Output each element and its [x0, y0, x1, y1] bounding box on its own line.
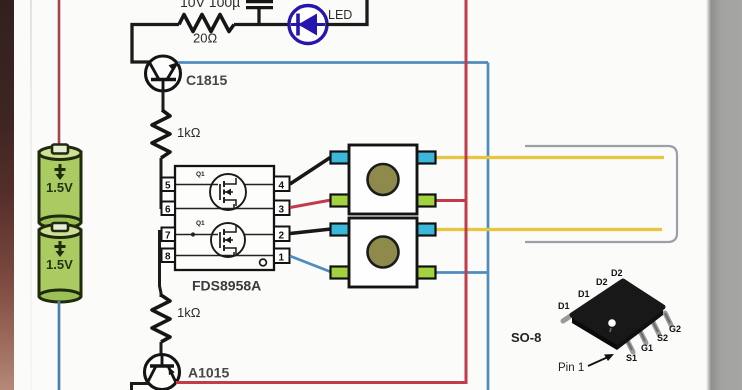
svg-text:10V 100µ: 10V 100µ — [180, 0, 240, 10]
svg-text:20Ω: 20Ω — [193, 31, 217, 46]
svg-text:D2: D2 — [596, 277, 608, 287]
red wire: Q2 emitter along bottom and up right side — [176, 0, 466, 383]
pin 6 — [162, 202, 176, 216]
internal wire pin7 to gate Q1b — [175, 232, 218, 236]
resistor R1 1kΩ (vertical zigzag) — [152, 110, 170, 158]
mosfet Q1a symbol — [210, 174, 246, 210]
label A1015 — [188, 365, 229, 381]
svg-text:SO-8: SO-8 — [511, 330, 541, 345]
receiver outline (open grey rounded rect) — [525, 146, 677, 242]
yellow wire: motor M2 to receiver — [435, 228, 662, 231]
battery B1 red lead — [58, 0, 61, 148]
resistor R2 1kΩ (vertical zigzag) — [152, 295, 170, 342]
value label 10V 100µ (top-clipped) — [180, 0, 240, 10]
IC U1 FDS8958A body — [175, 166, 274, 270]
svg-text:1: 1 — [279, 253, 285, 264]
svg-text:G1: G1 — [641, 343, 653, 353]
svg-text:1.5V: 1.5V — [46, 257, 73, 272]
pin 5 — [162, 178, 176, 192]
svg-text:4: 4 — [279, 181, 285, 192]
svg-text:C1815: C1815 — [186, 72, 227, 88]
capacitor C1 stub — [257, 9, 260, 25]
tiny label Q1a — [196, 171, 205, 178]
LED D1 (blue circled diode) — [289, 6, 327, 44]
capacitor C1 plates — [246, 2, 273, 8]
resistor 20Ω (horizontal zigzag in top rail) — [179, 15, 234, 32]
wire: pin2 to motor M2 + terminal — [290, 229, 331, 234]
wire: pin1 to motor M2 - terminal — [290, 256, 331, 272]
pin 4 — [274, 177, 290, 192]
pin 2 — [274, 227, 290, 242]
wire: pins 7/8 junction bar going down to R2 — [160, 230, 162, 297]
pin 8 — [162, 249, 176, 263]
battery B2 blue lead — [58, 301, 61, 390]
svg-text:A1015: A1015 — [188, 365, 229, 381]
motor M1 — [331, 145, 436, 214]
battery B1 1.5V — [39, 145, 81, 229]
svg-text:LED: LED — [328, 8, 352, 22]
red wire: M1 green tab to red net — [435, 199, 466, 202]
svg-text:8: 8 — [165, 252, 171, 263]
mosfet Q1b symbol — [211, 223, 245, 257]
svg-text:5: 5 — [165, 181, 171, 192]
svg-text:1kΩ: 1kΩ — [177, 125, 201, 140]
transistor Q1 C1815 (NPN, rotated) — [146, 56, 181, 92]
svg-text:FDS8958A: FDS8958A — [192, 278, 261, 294]
wire: pin4 to motor M1 + terminal — [290, 157, 331, 184]
left video border bar — [0, 0, 14, 390]
battery B2 1.5V — [39, 223, 81, 302]
internal wire to pin4 drain — [244, 184, 274, 186]
value label 1kΩ — [177, 125, 201, 140]
wire: top rail from left corner through resistor — [132, 25, 179, 63]
pin 3 — [274, 201, 290, 216]
internal wire pin8/pin1 source row — [175, 252, 274, 256]
svg-text:G2: G2 — [669, 324, 681, 334]
svg-text:S1: S1 — [626, 353, 637, 363]
pin 7 — [162, 228, 176, 242]
svg-text:7: 7 — [165, 231, 171, 242]
svg-text:1kΩ: 1kΩ — [177, 305, 201, 320]
SO-8 package illustration — [511, 268, 681, 374]
video page edge shadow — [30, 0, 32, 390]
wire: Q1 base lead down to R1 — [162, 90, 165, 112]
wire: blue vertical drop at right — [487, 63, 490, 390]
SO-8 left pin — [563, 315, 572, 321]
svg-text:Q1: Q1 — [196, 171, 205, 178]
SO-8 pin1 dot — [608, 319, 616, 327]
label C1815 — [186, 72, 227, 88]
wire: R1 to pins 5/6 junction bar — [160, 158, 163, 209]
SO-8 pins lower-right edge — [627, 340, 633, 352]
internal wire to pin2 drain — [244, 234, 274, 236]
svg-text:S2: S2 — [657, 333, 668, 343]
pin-1 indicator circle inside IC — [260, 259, 267, 266]
wire: top rail between resistor and LED — [234, 23, 290, 26]
svg-text:2: 2 — [279, 231, 285, 242]
internal wire pin6/pin3 source row — [175, 204, 274, 209]
svg-text:Pin 1: Pin 1 — [558, 362, 584, 374]
svg-text:D2: D2 — [611, 268, 623, 278]
wire: top rail right of LED going up off-screen — [326, 0, 367, 25]
wire: Q2 collector to bottom edge — [132, 384, 149, 390]
blue wire: M2 green tab to blue net — [435, 271, 488, 274]
svg-text:3: 3 — [279, 205, 285, 216]
value label 1kΩ — [177, 305, 201, 320]
value label 20Ω — [193, 31, 217, 46]
pin 1 — [274, 249, 290, 264]
transistor Q2 A1015 (PNP, rotated) — [145, 355, 180, 390]
svg-text:Q1: Q1 — [196, 220, 205, 227]
svg-text:D1: D1 — [578, 289, 590, 299]
yellow wire: motor M1 to receiver — [435, 156, 664, 159]
label FDS8958A — [192, 278, 261, 294]
right video border band — [706, 0, 742, 390]
tiny label Q1b — [196, 220, 205, 227]
wire: pin3 to motor M1 - terminal — [290, 200, 331, 208]
motor M2 — [331, 218, 436, 287]
wire: R2 to Q2 base — [160, 342, 163, 356]
label LED — [328, 8, 352, 22]
internal wire pin5 to gate Q1a — [175, 184, 218, 186]
svg-text:1.5V: 1.5V — [46, 180, 73, 195]
svg-text:6: 6 — [165, 205, 171, 216]
SO-8 body — [572, 315, 617, 350]
svg-text:D1: D1 — [558, 301, 570, 311]
wire: blue net from Q1 emitter across to right — [178, 61, 488, 64]
